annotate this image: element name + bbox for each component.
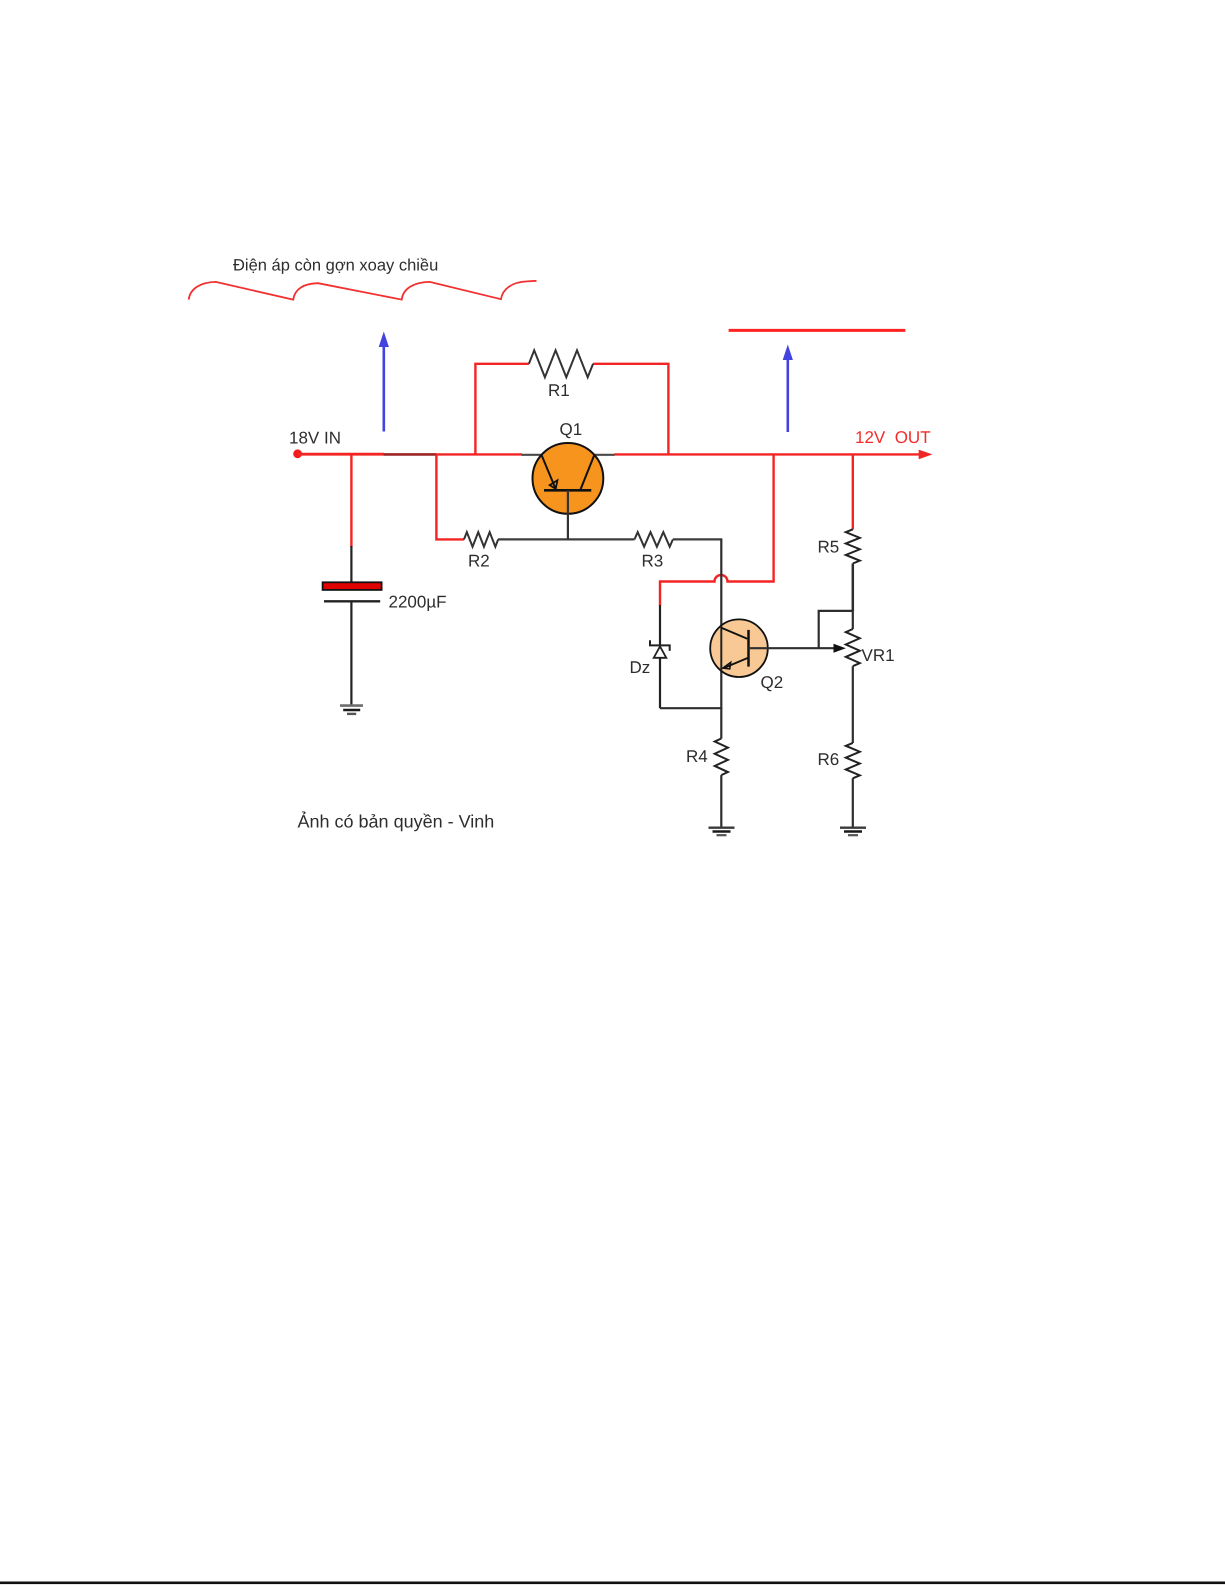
svg-text:R3: R3 bbox=[642, 552, 664, 571]
svg-text:R4: R4 bbox=[686, 747, 708, 766]
svg-text:Q2: Q2 bbox=[761, 673, 784, 692]
svg-text:R1: R1 bbox=[548, 381, 570, 400]
svg-text:Dz: Dz bbox=[630, 658, 651, 677]
svg-text:18V IN: 18V IN bbox=[289, 429, 341, 448]
svg-text:R2: R2 bbox=[468, 552, 490, 571]
svg-text:R6: R6 bbox=[818, 750, 840, 769]
svg-text:Điện áp còn gợn xoay chiều: Điện áp còn gợn xoay chiều bbox=[233, 257, 438, 275]
svg-text:R5: R5 bbox=[818, 537, 840, 556]
svg-text:VR1: VR1 bbox=[862, 646, 895, 665]
svg-text:Ảnh có bản quyền - Vinh: Ảnh có bản quyền - Vinh bbox=[298, 811, 495, 832]
svg-text:12V OUT: 12V OUT bbox=[855, 428, 931, 447]
svg-text:2200µF: 2200µF bbox=[389, 592, 447, 611]
svg-text:Q1: Q1 bbox=[560, 420, 583, 439]
